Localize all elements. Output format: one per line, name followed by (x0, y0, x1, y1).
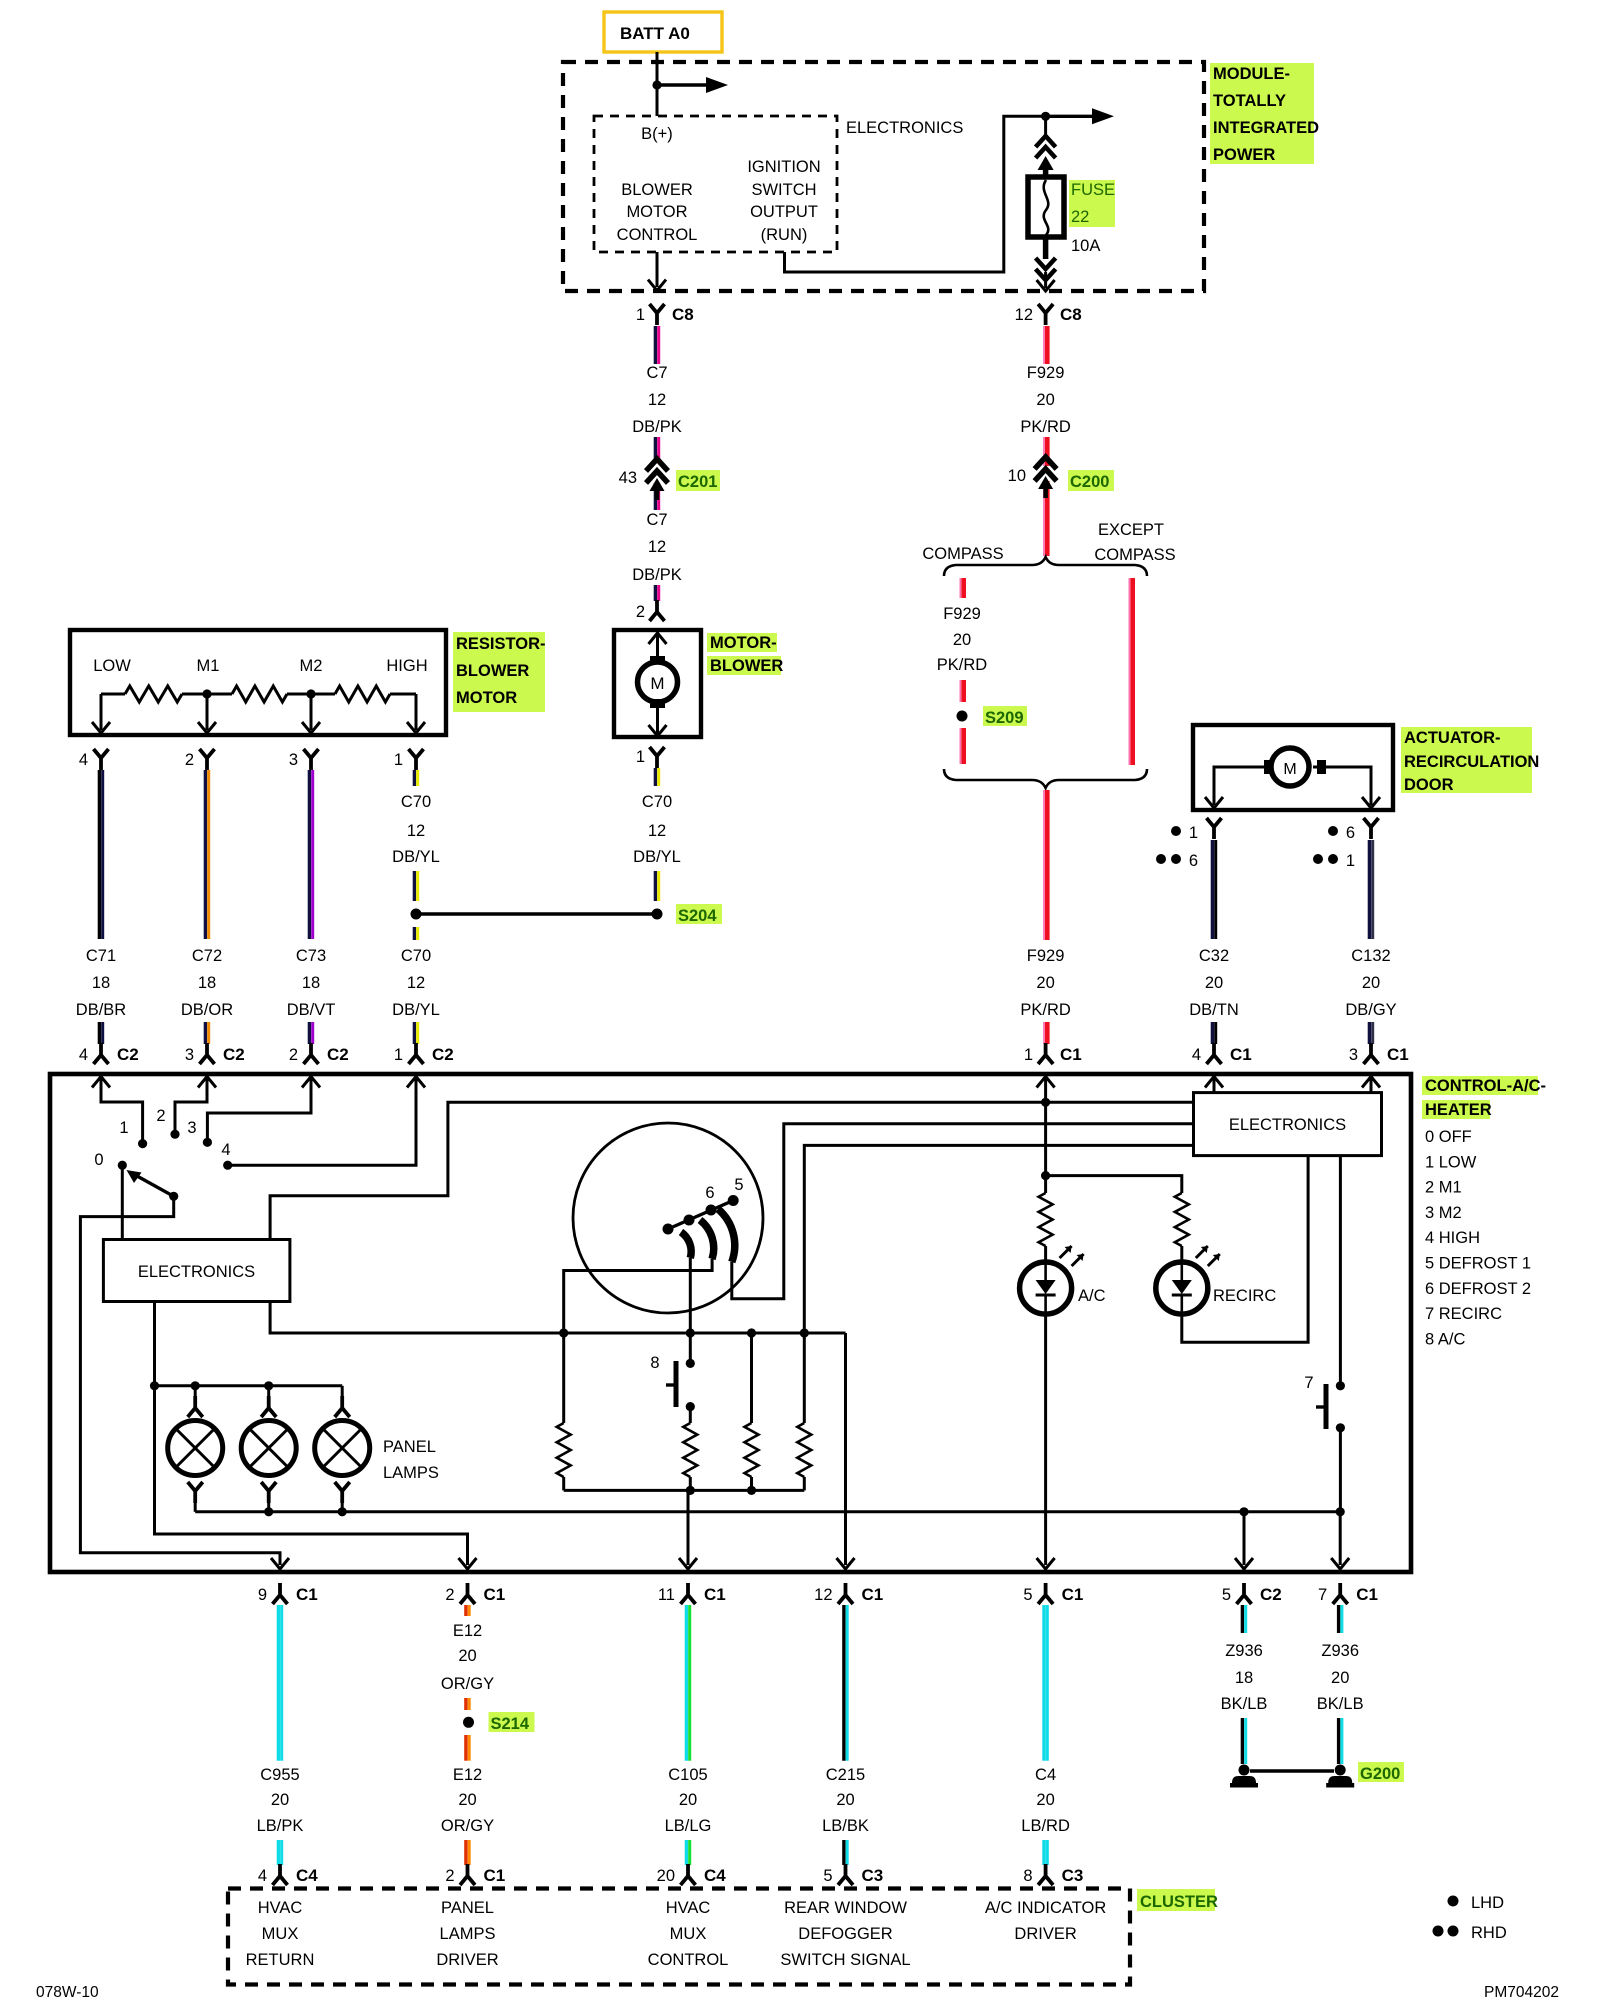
wire resistor4 top to right electronics (line 3) (804, 1145, 1193, 1423)
svg-text:1: 1 (1189, 824, 1198, 842)
motor-blower box (614, 630, 701, 737)
svg-text:BLOWER: BLOWER (710, 657, 783, 675)
svg-text:LOW: LOW (93, 657, 131, 675)
value label 10A (1071, 237, 1100, 255)
hvac mux control drop to 11 C1 (679, 1490, 697, 1569)
svg-text:C1: C1 (1060, 1045, 1082, 1064)
svg-text:3: 3 (289, 751, 298, 769)
svg-text:BATT A0: BATT A0 (620, 24, 690, 43)
svg-text:A/C INDICATOR: A/C INDICATOR (985, 1899, 1106, 1917)
resistor R-m2-high (311, 686, 416, 702)
svg-text:C201: C201 (678, 473, 717, 491)
control resistor R3 (745, 1333, 759, 1490)
svg-text:C3: C3 (1062, 1866, 1084, 1885)
connector C3 pin 8 (cluster) (1023, 1864, 1083, 1885)
rotary fan switch position wiring 3 (207, 1076, 311, 1139)
splice S204 (411, 909, 663, 920)
wire below splice (466, 1735, 469, 1761)
svg-text:REAR WINDOW: REAR WINDOW (784, 1899, 907, 1917)
mode arc medium (700, 1220, 714, 1259)
connector C1 pin 2 (cluster) (445, 1864, 505, 1885)
svg-text:2: 2 (289, 1046, 298, 1064)
rotary fan switch position wiring 4 (228, 1076, 416, 1165)
connector C2 pin 1 (394, 1043, 454, 1064)
svg-text:20: 20 (1205, 974, 1223, 992)
label HVAC MUX RETURN (246, 1899, 315, 1969)
svg-text:C1: C1 (1356, 1585, 1378, 1604)
svg-text:DB/PK: DB/PK (632, 418, 682, 436)
connector C1 pin 4 (1192, 1043, 1252, 1064)
svg-text:5: 5 (734, 1176, 743, 1194)
svg-text:6: 6 (1189, 852, 1198, 870)
label HVAC MUX CONTROL (648, 1899, 729, 1969)
svg-text:20: 20 (271, 1791, 289, 1809)
svg-text:18: 18 (92, 974, 110, 992)
svg-text:20: 20 (836, 1791, 854, 1809)
svg-text:4: 4 (221, 1141, 230, 1159)
svg-text:DRIVER: DRIVER (436, 1951, 498, 1969)
mode selector contact chain (663, 1195, 739, 1235)
label BLOWER MOTOR CONTROL (617, 181, 698, 244)
svg-text:DB/BR: DB/BR (76, 1001, 127, 1019)
svg-text:C3: C3 (862, 1866, 884, 1885)
svg-text:5 DEFROST 1: 5 DEFROST 1 (1425, 1255, 1531, 1273)
svg-text:C1: C1 (484, 1585, 506, 1604)
svg-text:DOOR: DOOR (1404, 776, 1454, 794)
rotary fan switch position wiring 2 (175, 1076, 207, 1131)
node lamp rail / 7 C1 drop (1336, 1507, 1345, 1516)
panel lamp L1 (168, 1386, 223, 1512)
svg-text:CONTROL: CONTROL (648, 1951, 729, 1969)
svg-text:20: 20 (657, 1867, 675, 1885)
ground tie wire (1250, 1769, 1334, 1772)
label Z936 18 BK/LB (1221, 1642, 1268, 1713)
wire ignition switch output to fuse (785, 116, 1044, 272)
actuator wiring to pins (1205, 767, 1268, 808)
wire large arc to right electronics (line 2) (732, 1124, 1194, 1299)
svg-text:S214: S214 (491, 1715, 530, 1733)
electronics box (control, left) (103, 1240, 290, 1302)
wire F929 compass branch (dashed) (960, 578, 963, 598)
svg-text:TOTALLY: TOTALLY (1213, 92, 1286, 110)
wire F929 20 PK/RD (upper) (1044, 326, 1047, 364)
label EXCEPT COMPASS (1094, 521, 1175, 564)
entry arrow at x=311 (302, 1077, 320, 1088)
label G200 (1358, 1762, 1404, 1783)
svg-text:RECIRC: RECIRC (1213, 1287, 1276, 1305)
connector C2 pin 4 (79, 1043, 139, 1064)
splice S214 (463, 1717, 474, 1728)
splice S209 (957, 711, 968, 722)
svg-text:C132: C132 (1351, 947, 1390, 965)
svg-text:DB/YL: DB/YL (392, 848, 440, 866)
svg-text:C1: C1 (862, 1585, 884, 1604)
panel lamps driver feed to 2 C1 (155, 1386, 477, 1569)
wiper arm output wire (80, 1196, 289, 1569)
mux rail drop to 12 C1 (837, 1333, 855, 1569)
LED A/C indicator (1020, 1246, 1084, 1314)
wire C70 12 DB/YL from motor (655, 768, 658, 786)
svg-text:0 OFF: 0 OFF (1425, 1128, 1472, 1146)
drop to 7 C1 (1331, 1512, 1349, 1569)
wire dash high into S204 (414, 871, 417, 901)
label C73 18 DB/VT (287, 947, 336, 1019)
resistor box terminal drop x=311 (302, 694, 320, 733)
wire dash to splice S209 (960, 680, 963, 702)
svg-text:6: 6 (705, 1184, 714, 1202)
connector C1 pin 3 (1349, 1043, 1409, 1064)
entry arrow at x=1214 (1205, 1077, 1223, 1088)
svg-text:ACTUATOR-: ACTUATOR- (1404, 729, 1501, 747)
label ELECTRONICS (control right) (1229, 1116, 1346, 1134)
panel lamp L3 (315, 1386, 370, 1512)
svg-text:2: 2 (185, 751, 194, 769)
wire F929 20 PK/RD to control head (1044, 790, 1047, 940)
svg-text:M: M (650, 674, 664, 693)
power feed arrow right at fuse node (1046, 108, 1114, 124)
connector C1 pin 2 (control box bottom) (445, 1583, 505, 1604)
label A/C (1078, 1287, 1106, 1305)
svg-text:C32: C32 (1199, 947, 1229, 965)
svg-text:7: 7 (1304, 1374, 1313, 1392)
svg-text:9: 9 (258, 1586, 267, 1604)
wire stub into cluster (1044, 1840, 1047, 1865)
svg-text:PM704202: PM704202 (1484, 1984, 1559, 2000)
svg-text:INTEGRATED: INTEGRATED (1213, 119, 1319, 137)
wire contact 0 to electronics (121, 1165, 124, 1239)
svg-text:C1: C1 (1230, 1045, 1252, 1064)
cluster dashed box (228, 1889, 1130, 1985)
label C32 20 DB/TN (1189, 947, 1239, 1019)
wire stub into cluster (686, 1840, 689, 1865)
wire dash below S209 (960, 728, 963, 764)
svg-text:4: 4 (1192, 1046, 1201, 1064)
battery feed box BATT A0 (604, 12, 722, 52)
LED RECIRC indicator (1156, 1246, 1220, 1314)
svg-text:20: 20 (1036, 1791, 1054, 1809)
svg-text:C70: C70 (642, 793, 672, 811)
svg-text:PK/RD: PK/RD (1020, 1001, 1071, 1019)
label C7 12 DB/PK (632, 364, 682, 436)
svg-text:OR/GY: OR/GY (441, 1817, 494, 1835)
node mux rail / medium arc (559, 1328, 568, 1337)
svg-text:4: 4 (79, 1046, 88, 1064)
svg-text:20: 20 (1362, 974, 1380, 992)
label RESISTOR-BLOWER MOTOR (453, 632, 546, 712)
svg-text:C7: C7 (646, 511, 667, 529)
electronics box (control, right) (1194, 1093, 1382, 1156)
label C70 12 DB/YL (motor) (633, 793, 681, 866)
svg-text:12: 12 (648, 538, 666, 556)
svg-text:12: 12 (648, 822, 666, 840)
wire dash into splice (466, 1698, 469, 1710)
wire C73 18 DB/VT (309, 770, 312, 939)
svg-text:OUTPUT: OUTPUT (750, 203, 818, 221)
label S214 (489, 1712, 535, 1733)
connector C1 pin 1 (1024, 1043, 1082, 1064)
led resistor RECIRC (1175, 1193, 1189, 1262)
connector C1 pin 5 (control box bottom) (1023, 1583, 1083, 1604)
node mux rail / line3 (800, 1328, 809, 1337)
label E12 20 OR/GY (upper) (441, 1622, 494, 1693)
wire stub into C1 (1044, 1022, 1047, 1044)
wire stub to motor connector (655, 585, 658, 601)
svg-text:5: 5 (1222, 1586, 1231, 1604)
svg-text:COMPASS: COMPASS (1094, 546, 1175, 564)
svg-text:C72: C72 (192, 947, 222, 965)
wire C4 20 LB/RD (1044, 1605, 1047, 1761)
svg-text:FUSE: FUSE (1071, 181, 1115, 199)
svg-text:C70: C70 (401, 793, 431, 811)
svg-text:10: 10 (1008, 467, 1026, 485)
wire except-compass branch (solid red) (1129, 578, 1132, 765)
svg-text:DB/GY: DB/GY (1345, 1001, 1396, 1019)
control resistor R2 (683, 1423, 697, 1490)
brace split top (944, 557, 1147, 576)
svg-text:LB/RD: LB/RD (1021, 1817, 1070, 1835)
wire C215 20 LB/BK (844, 1605, 847, 1761)
svg-text:0: 0 (94, 1151, 103, 1169)
svg-text:5: 5 (1023, 1586, 1032, 1604)
svg-text:DRIVER: DRIVER (1014, 1925, 1076, 1943)
fuse F22 body (1028, 177, 1064, 237)
connector C8 pin 12 (1015, 304, 1082, 325)
entry arrow at x=101 (92, 1077, 110, 1088)
svg-text:20: 20 (458, 1647, 476, 1665)
wire E12 upper (466, 1605, 469, 1616)
label F929 20 PK/RD (lower) (1020, 947, 1071, 1019)
label RECIRC (1213, 1287, 1276, 1305)
svg-text:18: 18 (1235, 1669, 1253, 1687)
svg-text:M: M (1283, 761, 1296, 778)
node fuse feed junction (1041, 112, 1050, 121)
svg-text:8: 8 (650, 1354, 659, 1372)
wire C955 20 LB/PK (278, 1605, 281, 1761)
svg-text:PK/RD: PK/RD (1020, 418, 1071, 436)
wire C70 12 DB/YL (high, upper stub) (414, 770, 417, 786)
svg-text:6: 6 (1346, 824, 1355, 842)
svg-text:HVAC: HVAC (258, 1899, 303, 1917)
wire C71 18 DB/BR (99, 770, 102, 939)
mode selector labels 6 5 (705, 1176, 743, 1202)
svg-text:DB/VT: DB/VT (287, 1001, 336, 1019)
svg-text:DB/YL: DB/YL (392, 1001, 440, 1019)
svg-text:MUX: MUX (670, 1925, 707, 1943)
svg-text:Z936: Z936 (1321, 1642, 1359, 1660)
label C201 (676, 470, 720, 491)
svg-text:RESISTOR-: RESISTOR- (456, 635, 546, 653)
svg-text:43: 43 (619, 469, 637, 487)
svg-text:RECIRCULATION: RECIRCULATION (1404, 753, 1539, 771)
svg-text:ELECTRONICS: ELECTRONICS (1229, 1116, 1346, 1134)
svg-text:CONTROL: CONTROL (617, 226, 698, 244)
svg-text:F929: F929 (1027, 364, 1065, 382)
label ELECTRONICS (control left) (138, 1263, 255, 1281)
svg-text:IGNITION: IGNITION (747, 158, 820, 176)
entry arrow at x=1371 (1362, 1077, 1380, 1088)
ground symbol G200 (1326, 1765, 1354, 1788)
svg-text:20: 20 (1036, 974, 1054, 992)
resistor R-low-m1 (101, 686, 207, 702)
push switch 8 (650, 1354, 694, 1423)
inner electronics dashed box (blower motor control / ignition switch output) (594, 116, 837, 252)
label ACTUATOR-RECIRCULATION DOOR (1401, 727, 1539, 794)
wire stub into C2 pin 2 (309, 1022, 312, 1044)
svg-text:C1: C1 (296, 1585, 318, 1604)
svg-text:3 M2: 3 M2 (1425, 1204, 1462, 1222)
wire C72 18 DB/OR (205, 770, 208, 939)
svg-text:MUX: MUX (262, 1925, 299, 1943)
connector C1 pin 12 (control box bottom) (814, 1583, 883, 1604)
connector C4 pin 4 (cluster) (258, 1864, 318, 1885)
svg-text:4 HIGH: 4 HIGH (1425, 1229, 1480, 1247)
label A/C INDICATOR DRIVER (985, 1899, 1106, 1943)
svg-text:M2: M2 (300, 657, 323, 675)
svg-text:C2: C2 (327, 1045, 349, 1064)
svg-text:C215: C215 (826, 1766, 865, 1784)
resistor box pin 1 (394, 749, 424, 770)
svg-text:E12: E12 (453, 1766, 482, 1784)
svg-text:7 RECIRC: 7 RECIRC (1425, 1305, 1502, 1323)
label PANEL LAMPS (383, 1438, 439, 1482)
svg-text:DB/OR: DB/OR (181, 1001, 233, 1019)
node M1 tap (202, 689, 211, 698)
svg-text:3: 3 (1349, 1046, 1358, 1064)
wire to ground (1339, 1718, 1342, 1764)
svg-text:12: 12 (407, 822, 425, 840)
brace join bottom (944, 769, 1147, 788)
wire to ground (1242, 1718, 1245, 1764)
svg-text:G200: G200 (1360, 1765, 1400, 1783)
legend RHD (1433, 1924, 1507, 1942)
label FUSE 22 (1069, 180, 1115, 227)
svg-text:2: 2 (156, 1107, 165, 1125)
legend LHD (1448, 1894, 1505, 1912)
wire dash into splice S204 (655, 871, 658, 901)
panel lamp top rail (150, 1381, 342, 1390)
label C4 20 LB/RD (1021, 1766, 1070, 1835)
push switch 7 (1304, 1374, 1345, 1512)
control resistor R1 (557, 1333, 571, 1490)
svg-text:1: 1 (394, 751, 403, 769)
svg-text:20: 20 (1331, 1669, 1349, 1687)
label CONTROL-A/C-HEATER (1422, 1076, 1546, 1119)
label IGNITION SWITCH OUTPUT (RUN) (747, 158, 820, 244)
wire C105 20 LB/LG (686, 1605, 689, 1761)
wire electronics bottom to panel-lamp rail (153, 1302, 156, 1386)
node lamp rail / 5 C2 drop (1239, 1507, 1248, 1516)
panel lamp bottom rail (195, 1507, 1340, 1516)
wire stub into cluster (844, 1840, 847, 1865)
rotary switch wiper arm (127, 1170, 179, 1201)
svg-text:CLUSTER: CLUSTER (1140, 1893, 1218, 1911)
resistor box pin 2 (185, 749, 215, 770)
svg-text:E12: E12 (453, 1622, 482, 1640)
svg-text:18: 18 (302, 974, 320, 992)
label ELECTRONICS (module) (846, 119, 963, 137)
connector C2 pin 5 (ground branch) (1222, 1583, 1282, 1604)
drop to 5 C2 (1235, 1512, 1253, 1569)
resistor box pin 3 (289, 749, 319, 770)
svg-text:3: 3 (185, 1046, 194, 1064)
rotary switch contacts 0-4 (118, 1130, 233, 1170)
svg-text:RETURN: RETURN (246, 1951, 315, 1969)
svg-text:C4: C4 (704, 1866, 726, 1885)
wire electronics bottom to mux rail (270, 1302, 845, 1333)
sheet id PM704202 (1484, 1984, 1559, 2001)
svg-text:DB/TN: DB/TN (1189, 1001, 1239, 1019)
svg-text:LB/PK: LB/PK (257, 1817, 304, 1835)
svg-text:HEATER: HEATER (1425, 1101, 1492, 1119)
svg-text:S209: S209 (985, 709, 1024, 727)
label C200 (1068, 470, 1114, 491)
label C70 12 DB/YL (to control) (392, 947, 440, 1019)
resistor bottom rail (564, 1486, 805, 1495)
wire stub into cluster (466, 1840, 469, 1865)
label PANEL LAMPS DRIVER (436, 1899, 498, 1969)
svg-text:18: 18 (198, 974, 216, 992)
svg-text:20: 20 (679, 1791, 697, 1809)
svg-text:078W-10: 078W-10 (36, 1984, 99, 2000)
connector C3 pin 5 (cluster) (823, 1864, 883, 1885)
svg-text:DEFOGGER: DEFOGGER (798, 1925, 893, 1943)
svg-text:1: 1 (119, 1119, 128, 1137)
resistor box pin 4 (79, 749, 109, 770)
svg-text:12: 12 (648, 391, 666, 409)
connector C2 pin 2 (289, 1043, 349, 1064)
node M2 tap (306, 689, 315, 698)
resistor-blower-motor box (70, 630, 446, 735)
svg-text:22: 22 (1071, 208, 1089, 226)
entry arrow at x=207 (198, 1077, 216, 1088)
svg-text:(RUN): (RUN) (761, 226, 808, 244)
svg-text:8: 8 (1023, 1867, 1032, 1885)
wire RECIRC led return to electronics (1182, 1156, 1308, 1343)
svg-text:S204: S204 (678, 907, 717, 925)
mode arc large (718, 1209, 735, 1262)
connector pin 1 below motor (636, 747, 665, 768)
mode selector circle (573, 1123, 763, 1313)
pin label B(+) (641, 125, 673, 143)
svg-text:4: 4 (258, 1867, 267, 1885)
svg-text:PANEL: PANEL (383, 1438, 436, 1456)
wire stub C1 pin 4 (1212, 1022, 1215, 1044)
svg-text:C1: C1 (704, 1585, 726, 1604)
svg-text:DB/PK: DB/PK (632, 566, 682, 584)
wire C7 12 DB/PK (upper) (655, 326, 658, 364)
svg-text:BK/LB: BK/LB (1221, 1695, 1268, 1713)
svg-text:1: 1 (394, 1046, 403, 1064)
svg-text:LHD: LHD (1471, 1894, 1504, 1912)
actuator-recirculation-door box (1193, 725, 1393, 810)
svg-text:F929: F929 (943, 605, 981, 623)
connector chevrons below fuse (1036, 237, 1056, 291)
svg-text:M1: M1 (197, 657, 220, 675)
label C215 20 LB/BK (822, 1766, 869, 1835)
rotary fan switch position wiring 1 (101, 1076, 143, 1140)
svg-text:MOTOR-: MOTOR- (710, 634, 777, 652)
label E12 20 OR/GY (441, 1766, 494, 1835)
in-line connector C200 pin 10 (1008, 457, 1057, 556)
svg-text:POWER: POWER (1213, 146, 1275, 164)
label C7 12 DB/PK (lower) (632, 511, 682, 584)
svg-text:A/C: A/C (1078, 1287, 1106, 1305)
control-a/c-heater box outline (50, 1074, 1411, 1572)
svg-text:ELECTRONICS: ELECTRONICS (846, 119, 963, 137)
svg-text:4: 4 (79, 751, 88, 769)
svg-text:MOTOR: MOTOR (456, 689, 517, 707)
resistor R-m1-m2 (207, 686, 311, 702)
